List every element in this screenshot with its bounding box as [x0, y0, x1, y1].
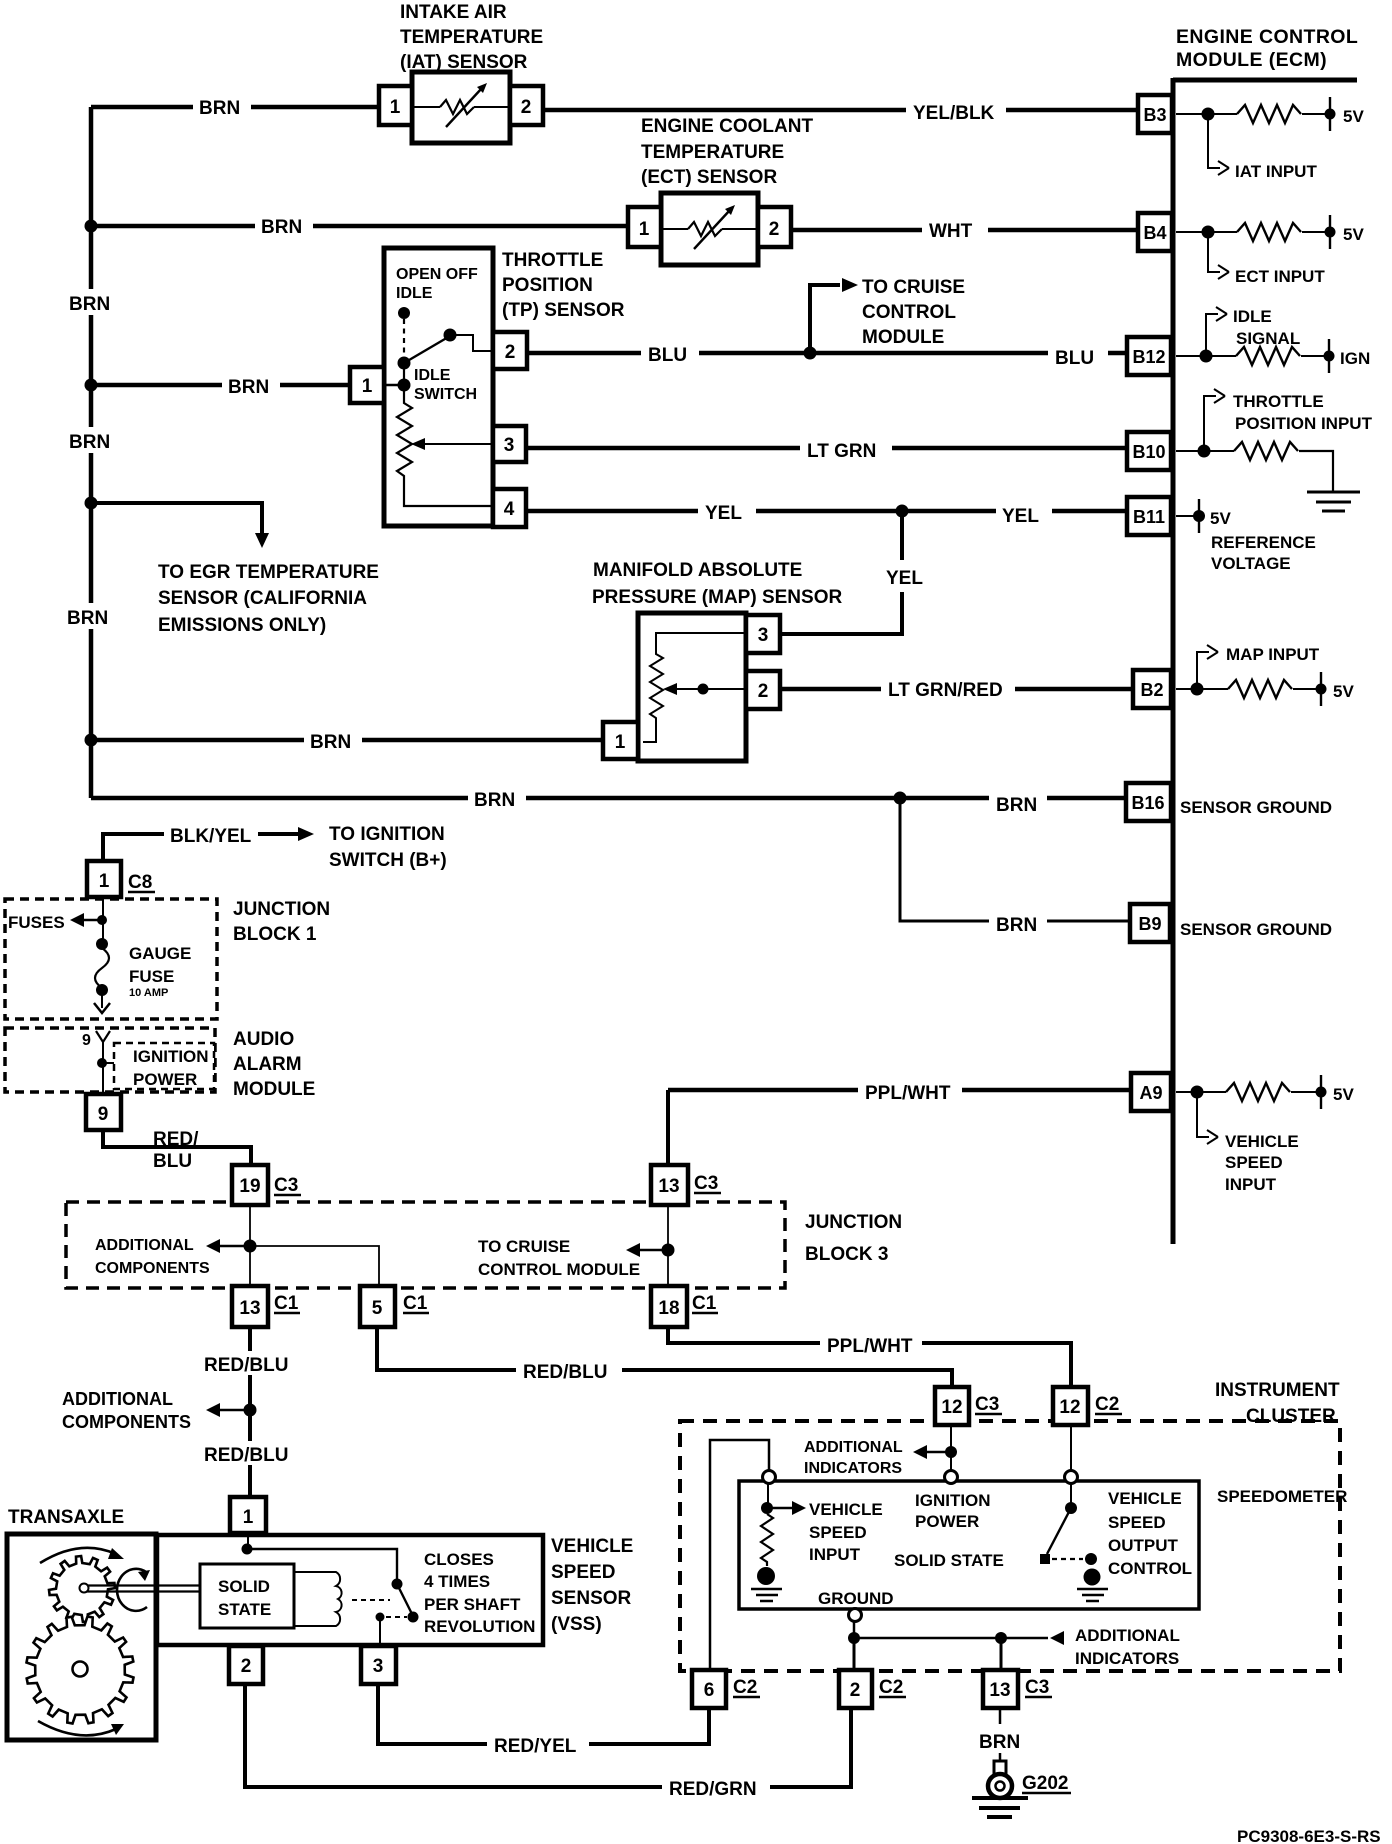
svg-text:1: 1 — [639, 219, 650, 240]
svg-text:YEL: YEL — [886, 568, 923, 589]
ECM top edge — [1173, 78, 1357, 83]
TP pin 3 — [493, 426, 526, 462]
svg-text:ECT INPUT: ECT INPUT — [1235, 267, 1325, 286]
svg-text:CLOSES: CLOSES — [424, 1550, 494, 1569]
junction block 3 (dashed) — [66, 1202, 785, 1288]
svg-text:CONTROL: CONTROL — [1108, 1559, 1192, 1578]
instrument cluster (dashed) — [680, 1421, 1340, 1671]
connector 19 C3 — [232, 1165, 268, 1205]
svg-text:IDLE: IDLE — [396, 285, 433, 302]
wire RED/YEL pin3 to 6 C2 — [378, 1684, 709, 1744]
svg-text:POWER: POWER — [915, 1512, 979, 1531]
svg-text:19: 19 — [239, 1176, 260, 1197]
svg-text:SPEED: SPEED — [809, 1523, 867, 1542]
svg-text:INSTRUMENT: INSTRUMENT — [1215, 1380, 1340, 1401]
svg-text:6: 6 — [704, 1680, 715, 1701]
svg-text:10 AMP: 10 AMP — [129, 987, 168, 999]
svg-text:C3: C3 — [1025, 1677, 1049, 1698]
svg-text:9: 9 — [98, 1104, 109, 1125]
transaxle box — [7, 1534, 156, 1740]
svg-text:INTAKE AIR: INTAKE AIR — [400, 2, 507, 23]
svg-text:C2: C2 — [733, 1677, 757, 1698]
svg-text:THROTTLE: THROTTLE — [1233, 392, 1324, 411]
svg-text:C8: C8 — [128, 872, 152, 893]
connector 5 C1 — [360, 1286, 395, 1327]
svg-text:C3: C3 — [975, 1394, 999, 1415]
svg-text:INPUT: INPUT — [809, 1545, 861, 1564]
wire PPL/WHT to ECM A9 — [668, 1088, 1133, 1093]
small gear — [49, 1556, 115, 1622]
svg-text:LT GRN: LT GRN — [807, 441, 876, 462]
large gear — [27, 1617, 134, 1724]
wire TP pin 4 to ECM B11 (YEL) — [527, 509, 1140, 514]
svg-text:C3: C3 — [694, 1173, 718, 1194]
node TP pin1 — [398, 379, 411, 392]
svg-text:RED/BLU: RED/BLU — [204, 1445, 288, 1466]
wire 6 C2 up inner path — [710, 1440, 769, 1670]
svg-text:INPUT: INPUT — [1225, 1175, 1277, 1194]
connector 1 C8 — [87, 861, 121, 897]
svg-text:PPL/WHT: PPL/WHT — [865, 1083, 951, 1104]
label BRN (bus, mid) — [63, 427, 119, 453]
label BRN (TP wire) — [222, 372, 280, 398]
IAT pin 1 — [379, 86, 412, 125]
curved arrow (top) — [40, 1548, 116, 1563]
wire EGR branch — [91, 503, 262, 536]
VSS switch arm — [397, 1584, 413, 1616]
ECT pin 1 — [628, 207, 661, 247]
svg-text:TRANSAXLE: TRANSAXLE — [8, 1507, 124, 1528]
ECT pin 2 — [758, 207, 791, 247]
svg-text:PRESSURE (MAP) SENSOR: PRESSURE (MAP) SENSOR — [592, 587, 842, 608]
ECT sensor body — [661, 193, 758, 265]
connector 6 C2 — [692, 1670, 726, 1708]
svg-text:BRN: BRN — [474, 790, 515, 811]
label BRN (B16 wire) — [989, 790, 1047, 816]
svg-text:ALARM: ALARM — [233, 1054, 302, 1075]
svg-text:BRN: BRN — [310, 732, 351, 753]
svg-text:IDLE: IDLE — [414, 367, 451, 384]
svg-text:CLUSTER: CLUSTER — [1246, 1406, 1336, 1427]
wire BRN to G202 — [999, 1708, 1002, 1724]
MAP pin 3 — [746, 615, 780, 653]
wire 12 C3 down / additional indicators — [950, 1425, 952, 1471]
svg-text:BRN: BRN — [261, 217, 302, 238]
connector B9 — [1130, 904, 1170, 942]
svg-text:PER SHAFT: PER SHAFT — [424, 1595, 521, 1614]
connector 13 C3 (right) — [651, 1165, 688, 1205]
svg-text:C2: C2 — [879, 1677, 903, 1698]
TP pin 1 — [350, 367, 384, 403]
svg-text:YEL: YEL — [705, 503, 742, 524]
B3 row internals — [1176, 97, 1330, 175]
resistor TP (potentiometer) — [397, 363, 493, 506]
svg-text:BLU: BLU — [1055, 348, 1094, 369]
svg-text:IGNITION: IGNITION — [915, 1491, 991, 1510]
label CLOSES 4 TIMES PER SHAFT REVOLUTION — [424, 1550, 535, 1636]
svg-text:BLU: BLU — [648, 345, 687, 366]
JB3 left internals — [249, 1205, 251, 1286]
svg-text:MAP INPUT: MAP INPUT — [1226, 645, 1320, 664]
svg-text:RED/: RED/ — [153, 1129, 199, 1150]
svg-text:OUTPUT: OUTPUT — [1108, 1536, 1179, 1555]
svg-text:12: 12 — [1059, 1397, 1080, 1418]
wire RED/BLU from 13 C1 down to VSS pin 1 — [248, 1327, 252, 1499]
ECM vertical line — [1171, 78, 1176, 1244]
svg-text:IGN: IGN — [1340, 349, 1370, 368]
connector B3 — [1138, 95, 1172, 133]
node BLU branch junction — [804, 347, 817, 360]
svg-text:2: 2 — [850, 1680, 861, 1701]
label BLU (right) — [1048, 343, 1108, 369]
svg-text:IDLE: IDLE — [1233, 307, 1272, 326]
svg-text:REFERENCE: REFERENCE — [1211, 533, 1316, 552]
svg-text:C2: C2 — [1095, 1394, 1119, 1415]
svg-text:C3: C3 — [274, 1175, 298, 1196]
svg-text:COMPONENTS: COMPONENTS — [95, 1260, 210, 1277]
resistor (speedометer input) — [761, 1514, 773, 1566]
svg-text:THROTTLE: THROTTLE — [502, 250, 603, 271]
connector 12 C3 — [935, 1387, 969, 1425]
svg-text:18: 18 — [658, 1298, 679, 1319]
svg-text:FUSE: FUSE — [129, 967, 174, 986]
svg-text:VEHICLE: VEHICLE — [1108, 1489, 1182, 1508]
label BRN (bus, lower) — [61, 603, 117, 629]
svg-text:GAUGE: GAUGE — [129, 944, 191, 963]
svg-text:INDICATORS: INDICATORS — [1075, 1649, 1179, 1668]
label VEHICLE SPEED SENSOR (VSS) — [551, 1536, 633, 1635]
svg-text:BLK/YEL: BLK/YEL — [170, 826, 252, 847]
wire bus to TP pin 1 — [91, 383, 350, 388]
label BRN (B9 wire) — [989, 910, 1047, 936]
svg-text:SENSOR: SENSOR — [551, 1588, 632, 1609]
svg-text:13: 13 — [989, 1680, 1010, 1701]
svg-text:5V: 5V — [1333, 1085, 1354, 1104]
MAP pin 2 — [746, 671, 780, 709]
svg-text:BRN: BRN — [69, 294, 110, 315]
node bus-EGR junction — [85, 497, 98, 510]
svg-text:9: 9 — [82, 1032, 91, 1049]
svg-text:YEL/BLK: YEL/BLK — [913, 103, 995, 124]
svg-text:2: 2 — [521, 97, 532, 118]
svg-text:SENSOR GROUND: SENSOR GROUND — [1180, 798, 1332, 817]
svg-text:STATE: STATE — [218, 1600, 271, 1619]
curved arrow (bottom) — [38, 1721, 116, 1735]
MAP sensor body — [638, 613, 746, 761]
svg-text:VEHICLE: VEHICLE — [551, 1536, 633, 1557]
connector B16 — [1126, 783, 1171, 821]
svg-text:3: 3 — [373, 1656, 384, 1677]
label LT GRN — [800, 436, 892, 462]
connector 2 C2 — [839, 1670, 872, 1708]
wire PPL/WHT from 18 C1 to 12 C2 — [668, 1327, 1071, 1389]
shaft — [84, 1586, 200, 1592]
svg-text:B3: B3 — [1143, 105, 1166, 125]
svg-text:SWITCH: SWITCH — [414, 386, 477, 403]
wire BRN sensor ground to B16 — [91, 796, 1128, 801]
wire bus to ECT pin 1 — [91, 224, 628, 229]
connector B11 — [1127, 497, 1171, 535]
svg-text:WHT: WHT — [929, 221, 973, 242]
svg-text:BRN: BRN — [69, 432, 110, 453]
svg-text:BLOCK 3: BLOCK 3 — [805, 1244, 888, 1265]
svg-text:13: 13 — [239, 1298, 260, 1319]
wiper arrow MAP — [672, 688, 746, 690]
B10 row internals — [1176, 389, 1360, 511]
wire TP pin 3 to ECM B10 (LT GRN) — [527, 446, 1140, 451]
svg-text:ADDITIONAL: ADDITIONAL — [95, 1237, 194, 1254]
node bus-TP junction — [85, 379, 98, 392]
svg-text:C1: C1 — [692, 1293, 717, 1314]
B11 row internals — [1176, 499, 1199, 533]
svg-text:MODULE (ECM): MODULE (ECM) — [1176, 49, 1327, 71]
wire down to 13 C3 — [666, 1090, 670, 1167]
connector 13 C3 (bottom) — [983, 1670, 1018, 1708]
resistor MAP (potentiometer) — [643, 633, 746, 742]
svg-text:5: 5 — [372, 1298, 383, 1319]
connector 18 C1 — [651, 1286, 687, 1327]
svg-text:IGNITION: IGNITION — [133, 1047, 209, 1066]
wiper arrow from pin 3 — [420, 443, 493, 445]
svg-text:PC9308-6E3-S-RS: PC9308-6E3-S-RS — [1237, 1827, 1381, 1844]
TP idle switch — [398, 307, 410, 319]
svg-text:BRN: BRN — [996, 915, 1037, 936]
wire RED/GRN pin2 to 2 C2 — [245, 1684, 851, 1787]
svg-text:POSITION INPUT: POSITION INPUT — [1235, 414, 1373, 433]
svg-text:3: 3 — [758, 625, 769, 646]
svg-text:3: 3 — [504, 435, 515, 456]
TP sensor title — [502, 250, 965, 348]
svg-text:5V: 5V — [1333, 682, 1354, 701]
svg-text:EMISSIONS ONLY): EMISSIONS ONLY) — [158, 615, 326, 636]
svg-text:5V: 5V — [1210, 509, 1231, 528]
svg-text:SENSOR (CALIFORNIA: SENSOR (CALIFORNIA — [158, 588, 367, 609]
svg-text:LT GRN/RED: LT GRN/RED — [888, 680, 1003, 701]
svg-text:MODULE: MODULE — [233, 1079, 315, 1100]
svg-text:IAT INPUT: IAT INPUT — [1235, 162, 1317, 181]
svg-text:1: 1 — [390, 97, 401, 118]
svg-text:GROUND: GROUND — [818, 1589, 894, 1608]
svg-text:VOLTAGE: VOLTAGE — [1211, 554, 1291, 573]
solid state box — [200, 1564, 294, 1628]
svg-text:PPL/WHT: PPL/WHT — [827, 1336, 913, 1357]
svg-text:YEL: YEL — [1002, 506, 1039, 527]
svg-text:B11: B11 — [1133, 507, 1165, 527]
svg-text:BLOCK 1: BLOCK 1 — [233, 924, 317, 945]
wire BLK/YEL to ignition switch — [103, 834, 299, 861]
svg-text:C1: C1 — [403, 1293, 428, 1314]
wire 12 C2 down — [1070, 1425, 1072, 1471]
svg-text:B12: B12 — [1132, 347, 1165, 367]
svg-text:(VSS): (VSS) — [551, 1614, 602, 1635]
connector B2 — [1133, 670, 1171, 708]
svg-text:(TP) SENSOR: (TP) SENSOR — [502, 300, 625, 321]
svg-text:5V: 5V — [1343, 225, 1364, 244]
junction block 1 (dashed) — [5, 899, 217, 1019]
svg-text:FUSES: FUSES — [8, 913, 65, 932]
B2 row internals — [1176, 645, 1321, 706]
svg-text:5V: 5V — [1343, 107, 1364, 126]
svg-text:TEMPERATURE: TEMPERATURE — [400, 27, 543, 48]
speedometer box — [739, 1481, 1199, 1609]
VSS internal wiring — [247, 1535, 249, 1549]
connector A9 — [1131, 1073, 1171, 1111]
svg-text:ADDITIONAL: ADDITIONAL — [804, 1439, 903, 1456]
svg-text:12: 12 — [941, 1397, 962, 1418]
ground (speedometer left) — [757, 1567, 775, 1585]
speedometer left: vehicle speed input — [767, 1484, 769, 1508]
VSS outer box — [157, 1535, 543, 1645]
VSS pin 2 — [229, 1646, 263, 1684]
svg-text:INDICATORS: INDICATORS — [804, 1460, 902, 1477]
svg-text:SPEED: SPEED — [1108, 1513, 1166, 1532]
B12 row internals — [1176, 307, 1329, 373]
svg-text:JUNCTION: JUNCTION — [233, 899, 330, 920]
wire ECT pin 2 to ECM B4 — [791, 228, 1140, 233]
svg-text:TO EGR TEMPERATURE: TO EGR TEMPERATURE — [158, 562, 379, 583]
svg-text:1: 1 — [362, 376, 373, 397]
svg-text:RED/BLU: RED/BLU — [204, 1355, 288, 1376]
svg-text:4: 4 — [504, 499, 515, 520]
svg-text:VEHICLE: VEHICLE — [1225, 1132, 1299, 1151]
node bus-ECT junction — [85, 220, 98, 233]
svg-text:POWER: POWER — [133, 1070, 197, 1089]
svg-text:CONTROL: CONTROL — [862, 302, 956, 323]
svg-text:MANIFOLD ABSOLUTE: MANIFOLD ABSOLUTE — [593, 560, 802, 581]
label LT GRN/RED — [881, 675, 1015, 701]
svg-text:SPEED: SPEED — [551, 1562, 615, 1583]
svg-text:MODULE: MODULE — [862, 327, 944, 348]
svg-text:OPEN OFF: OPEN OFF — [396, 266, 478, 283]
ignition power inner dashed box — [114, 1043, 214, 1089]
node YEL branch junction — [896, 505, 909, 518]
svg-text:SPEED: SPEED — [1225, 1153, 1283, 1172]
svg-text:C1: C1 — [274, 1293, 299, 1314]
svg-text:1: 1 — [99, 871, 110, 892]
svg-text:TEMPERATURE: TEMPERATURE — [641, 142, 784, 163]
pickup coil — [294, 1572, 342, 1626]
svg-text:ENGINE COOLANT: ENGINE COOLANT — [641, 116, 813, 137]
MAP pin 1 — [603, 722, 638, 759]
svg-text:JUNCTION: JUNCTION — [805, 1212, 902, 1233]
svg-text:13: 13 — [658, 1176, 679, 1197]
wire MAP pin 2 to ECM B2 (LT GRN/RED) — [780, 687, 1135, 692]
svg-text:VEHICLE: VEHICLE — [809, 1500, 883, 1519]
svg-text:SIGNAL: SIGNAL — [1236, 329, 1300, 348]
svg-text:B9: B9 — [1138, 914, 1161, 934]
wire branch to cruise control — [810, 285, 840, 353]
svg-text:2: 2 — [758, 681, 769, 702]
node BRN ground junction — [894, 792, 907, 805]
svg-text:REVOLUTION: REVOLUTION — [424, 1617, 535, 1636]
speedometer right: output switch — [1070, 1484, 1072, 1508]
label YEL (right) — [996, 501, 1052, 527]
svg-text:POSITION: POSITION — [502, 275, 593, 296]
JB3 right internals — [667, 1205, 669, 1286]
svg-text:SWITCH (B+): SWITCH (B+) — [329, 850, 447, 871]
svg-text:SOLID STATE: SOLID STATE — [894, 1551, 1004, 1570]
wires down to bottom connectors — [853, 1638, 856, 1672]
svg-text:RED/GRN: RED/GRN — [669, 1779, 757, 1800]
wire TP pin 2 to ECM B12 (BLU) — [527, 351, 1140, 356]
svg-text:AUDIO: AUDIO — [233, 1029, 294, 1050]
label BRN (long ground wire) — [468, 785, 526, 811]
fuse chain inside JB1 — [102, 897, 104, 942]
svg-text:COMPONENTS: COMPONENTS — [62, 1412, 191, 1432]
svg-text:TO IGNITION: TO IGNITION — [329, 824, 445, 845]
ground G202 — [999, 1753, 1002, 1762]
connector 9 (AAM bottom) — [86, 1094, 121, 1130]
B4 row internals — [1176, 215, 1330, 279]
svg-text:ADDITIONAL: ADDITIONAL — [62, 1389, 173, 1409]
svg-text:2: 2 — [769, 219, 780, 240]
connector B10 — [1127, 432, 1171, 470]
open terminals on speedometer top — [763, 1471, 776, 1484]
wire BRN bus vertical — [89, 107, 94, 798]
svg-text:2: 2 — [505, 342, 516, 363]
svg-text:BRN: BRN — [979, 1732, 1020, 1753]
svg-text:B16: B16 — [1131, 793, 1164, 813]
wire RED/BLU from AAM to 19 C3 — [103, 1130, 251, 1167]
svg-text:BRN: BRN — [996, 795, 1037, 816]
svg-text:G202: G202 — [1022, 1773, 1068, 1794]
svg-text:B4: B4 — [1143, 223, 1166, 243]
rotation arrow around shaft — [117, 1569, 147, 1611]
svg-text:BLU: BLU — [153, 1151, 192, 1172]
wire RED/BLU from 5 C1 to 12 C3 — [377, 1327, 952, 1389]
svg-text:1: 1 — [243, 1507, 254, 1528]
connector 12 C2 — [1053, 1387, 1088, 1425]
svg-text:TO CRUISE: TO CRUISE — [478, 1237, 570, 1256]
svg-text:SOLID: SOLID — [218, 1577, 270, 1596]
label YEL/BLK — [906, 97, 1006, 124]
svg-text:B10: B10 — [1132, 442, 1165, 462]
fuse GAUGE FUSE 10 AMP — [95, 948, 109, 988]
label WHT — [922, 216, 988, 242]
VSS pin 1 — [230, 1497, 266, 1533]
label BRN (MAP wire) — [304, 727, 362, 753]
IAT pin 2 — [510, 86, 543, 125]
audio alarm module (dashed) — [5, 1028, 215, 1092]
wire bus to MAP pin 1 (BRN) — [91, 738, 605, 743]
svg-text:1: 1 — [615, 732, 626, 753]
VSS pin 3 — [361, 1646, 396, 1684]
svg-text:CONTROL MODULE: CONTROL MODULE — [478, 1260, 640, 1279]
svg-text:ENGINE CONTROL: ENGINE CONTROL — [1176, 26, 1358, 48]
wire to B9 sensor ground — [900, 798, 1132, 921]
label BRN (bus, upper) — [63, 289, 119, 315]
svg-text:ADDITIONAL: ADDITIONAL — [1075, 1626, 1180, 1645]
A9 row internals — [1176, 1075, 1321, 1144]
IAT sensor body — [412, 72, 510, 143]
wire IAT pin 2 to ECM B3 — [543, 108, 1140, 113]
connector B4 — [1138, 213, 1172, 251]
wire bus to IAT pin 1 — [91, 105, 379, 110]
svg-text:RED/YEL: RED/YEL — [494, 1736, 577, 1757]
TP pin 4 — [493, 489, 526, 527]
svg-text:BRN: BRN — [199, 98, 240, 119]
svg-text:BRN: BRN — [228, 377, 269, 398]
ground (speedometer right) — [1084, 1569, 1101, 1586]
svg-text:A9: A9 — [1139, 1083, 1162, 1103]
ECM header — [1176, 26, 1358, 71]
svg-text:2: 2 — [241, 1656, 252, 1677]
svg-text:TO CRUISE: TO CRUISE — [862, 277, 965, 298]
connector 13 C1 — [232, 1286, 268, 1327]
label BRN (ECT wire) — [255, 212, 313, 238]
svg-text:B2: B2 — [1140, 680, 1163, 700]
svg-text:SENSOR GROUND: SENSOR GROUND — [1180, 920, 1332, 939]
